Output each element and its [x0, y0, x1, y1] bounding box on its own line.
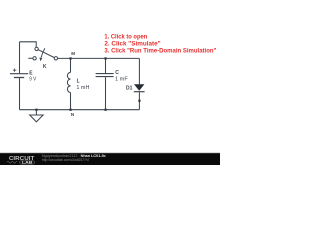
svg-text:LAB: LAB — [22, 161, 33, 165]
svg-text:D1: D1 — [126, 85, 133, 91]
svg-text:K: K — [43, 64, 47, 70]
svg-text:L: L — [77, 79, 80, 85]
svg-text:1 mH: 1 mH — [76, 85, 89, 91]
svg-text:9 V: 9 V — [29, 76, 37, 82]
svg-text:C: C — [115, 70, 119, 76]
svg-text:http://circuitlab.com/c2w62577: http://circuitlab.com/c2w62577h7 — [42, 158, 90, 162]
svg-text:3. Click "Run Time-Domain Simu: 3. Click "Run Time-Domain Simulation" — [104, 47, 216, 54]
svg-text:1 mF: 1 mF — [115, 77, 128, 83]
svg-text:M: M — [71, 51, 75, 56]
